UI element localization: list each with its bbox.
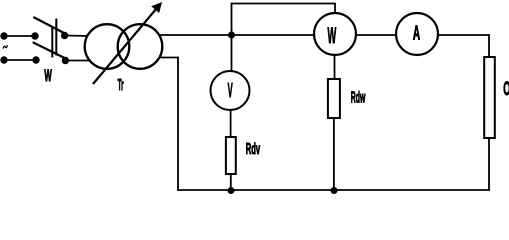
wire [333,118,335,190]
svg-text:W: W [327,23,336,48]
svg-text:A: A [413,23,420,45]
switch W pole 1 left terminal [31,32,38,39]
wire [177,57,179,191]
resistor Rdv [226,137,236,174]
transformer Tr adjustment arrow [93,2,162,84]
wire [356,34,396,36]
wire [231,3,336,5]
wattmeter W [314,13,356,55]
wire [488,138,490,191]
node junction C [331,187,338,194]
svg-text:Tr: Tr [118,76,124,94]
wire [438,34,490,36]
switch W pole 2 blade [33,42,65,58]
wire [65,60,90,62]
svg-text:Rdw: Rdw [351,88,366,106]
wire [65,35,88,38]
resistor Rdw [328,79,340,118]
switch W pole 1 blade [33,17,64,33]
voltmeter V [211,71,250,110]
switch W mechanical link [52,19,56,58]
transformer Tr primary winding [85,24,130,69]
wire [4,35,35,37]
AC source symbol ~ [3,45,7,48]
svg-text:W: W [44,66,52,85]
svg-text:V: V [228,80,233,102]
wire [4,59,36,61]
node supply terminal L2 [0,56,7,63]
transformer Tr secondary winding [118,24,163,69]
wire [159,57,179,59]
wire [231,35,233,72]
ammeter A [396,13,438,55]
wire [231,4,233,36]
wire [488,34,490,57]
wire [334,4,336,14]
switch W pole 2 right terminal [62,57,69,64]
wire bottom bus [177,189,490,191]
wire [230,174,232,190]
node supply terminal L1 [0,32,7,39]
wire [230,110,232,138]
svg-text:O: O [503,79,509,101]
node junction A [228,32,235,39]
switch W pole 2 left terminal [32,56,39,63]
switch W pole 1 right terminal [61,32,68,39]
wire [334,55,336,80]
wire [159,34,315,36]
load O [484,57,495,138]
svg-text:Rdv: Rdv [246,140,261,158]
node junction B [228,187,235,194]
